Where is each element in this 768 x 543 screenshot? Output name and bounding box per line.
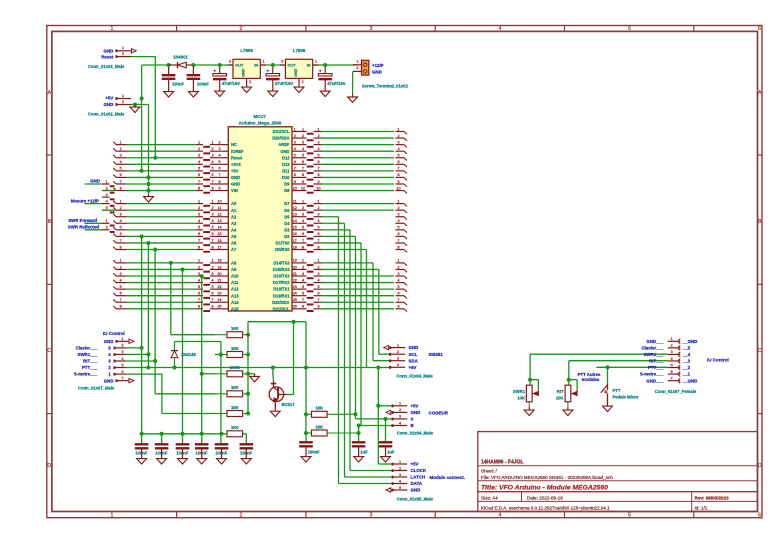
svg-text:8: 8 (211, 305, 213, 309)
svg-text:IOREF: IOREF (231, 149, 244, 154)
svg-text:2: 2 (211, 265, 213, 269)
svg-text:7: 7 (317, 239, 319, 243)
svg-text:SWR Forward: SWR Forward (68, 218, 97, 223)
connector J5 pin2 SWR Reflected wire (85, 229, 103, 231)
svg-text:1: 1 (671, 337, 673, 341)
svg-text:1: 1 (211, 199, 213, 203)
svg-text:D9: D9 (284, 182, 290, 187)
svg-text:20: 20 (293, 265, 297, 269)
svg-text:+5V: +5V (411, 462, 419, 467)
frame row ticks left/right (47, 154, 52, 156)
svg-text:7: 7 (218, 173, 220, 177)
svg-text:1: 1 (120, 140, 122, 144)
connector J4 pin2 (102, 190, 110, 192)
svg-text:13: 13 (293, 213, 297, 217)
svg-text:7: 7 (302, 239, 304, 243)
capacitor C1 100nF (168, 65, 170, 75)
wire/pins left row C7 (113, 299, 116, 302)
svg-text:SWR1: SWR1 (513, 389, 526, 394)
wire +5V pullup vertical x306 (305, 322, 307, 442)
svg-text:5: 5 (397, 154, 399, 158)
svg-text:1: 1 (397, 259, 399, 263)
svg-text:8: 8 (198, 305, 200, 309)
svg-text:__1: __1 (682, 372, 691, 377)
svg-text:1: 1 (302, 127, 304, 131)
svg-text:14HAM86 - F4JGL: 14HAM86 - F4JGL (481, 459, 524, 465)
wire/pins right row B1 (292, 203, 300, 205)
svg-text:100nF: 100nF (197, 81, 210, 86)
svg-text:SWR1___: SWR1___ (77, 352, 98, 357)
svg-text:4: 4 (499, 26, 502, 32)
svg-text:GND: GND (231, 182, 240, 187)
svg-text:GND: GND (104, 378, 114, 383)
svg-text:5: 5 (198, 167, 200, 171)
svg-text:C: C (758, 348, 762, 354)
svg-text:6: 6 (302, 292, 304, 296)
svg-text:A1: A1 (231, 208, 237, 213)
svg-text:Arduino_Mega_2560: Arduino_Mega_2560 (239, 120, 282, 125)
svg-text:16: 16 (217, 239, 221, 243)
svg-text:D20/SDA: D20/SDA (272, 300, 289, 305)
svg-text:6: 6 (120, 173, 122, 177)
wire vertical encoder B net (360, 243, 362, 426)
svg-text:1uF: 1uF (360, 449, 368, 454)
svg-text:SCL: SCL (409, 352, 418, 357)
wire +5V to CODEUR pin1 (378, 405, 392, 407)
svg-text:2: 2 (240, 26, 243, 32)
svg-text:S-metre___: S-metre___ (74, 372, 98, 377)
svg-text:2: 2 (397, 134, 399, 138)
svg-text:3: 3 (302, 213, 304, 217)
wire vertical RIT net from MCU A7 row to R4 (154, 250, 156, 394)
svg-text:A15: A15 (231, 306, 239, 311)
svg-text:14: 14 (217, 226, 221, 230)
svg-text:L7805: L7805 (240, 48, 253, 53)
wire/pins left row B3 (113, 214, 116, 217)
svg-text:B: B (411, 423, 414, 428)
svg-text:3: 3 (121, 350, 123, 354)
svg-text:7: 7 (397, 298, 399, 302)
svg-text:3: 3 (397, 213, 399, 217)
svg-text:8: 8 (302, 245, 304, 249)
title block title line (478, 491, 758, 493)
svg-text:1: 1 (211, 259, 213, 263)
svg-text:23: 23 (293, 285, 297, 289)
svg-text:2: 2 (294, 134, 296, 138)
svg-text:10: 10 (217, 199, 221, 203)
svg-text:3: 3 (211, 272, 213, 276)
svg-text:7: 7 (211, 180, 213, 184)
svg-text:8: 8 (397, 245, 399, 249)
svg-text:25: 25 (217, 305, 221, 309)
svg-text:2: 2 (397, 350, 399, 354)
svg-text:2: 2 (218, 140, 220, 144)
connector J7 pin1 GND (390, 347, 406, 349)
svg-text:A10: A10 (231, 274, 239, 279)
connector J9 pin5 GND (392, 489, 407, 491)
ground at J2 GND (133, 103, 137, 107)
svg-text:2: 2 (397, 265, 399, 269)
wire +5V pin to vertical (140, 97, 144, 101)
svg-text:6: 6 (397, 160, 399, 164)
svg-text:19: 19 (293, 259, 297, 263)
svg-text:2: 2 (249, 79, 251, 84)
wire IU SWR1 row (126, 353, 149, 355)
svg-text:4: 4 (302, 147, 304, 151)
svg-text:+5V: +5V (411, 403, 419, 408)
wire/pins left row B5 (113, 227, 116, 230)
svg-text:D15/RX3: D15/RX3 (273, 267, 290, 272)
wire/pins left row A2 (113, 148, 116, 151)
svg-text:47uF/16V: 47uF/16V (222, 81, 241, 86)
svg-text:Conn_01x02_Male: Conn_01x02_Male (88, 64, 125, 69)
svg-text:A5: A5 (231, 234, 237, 239)
svg-text:1: 1 (122, 93, 124, 98)
svg-text:3: 3 (198, 213, 200, 217)
capacitor C14 1uF (encoder A) (385, 419, 387, 442)
ground below RV2 (567, 402, 569, 408)
svg-text:1N4001: 1N4001 (173, 55, 188, 60)
svg-text:24: 24 (217, 298, 221, 302)
svg-text:1: 1 (397, 343, 399, 347)
svg-text:2: 2 (120, 265, 122, 269)
capacitor C5 47uF/16V electrolytic (324, 65, 326, 75)
capacitor C13 1uF (encoder B) (358, 426, 360, 442)
svg-text:6: 6 (671, 370, 673, 374)
svg-text:9: 9 (218, 186, 220, 190)
svg-text:5: 5 (211, 167, 213, 171)
capacitor C9 100nF (195, 443, 209, 445)
ground pin U1 (246, 78, 248, 84)
svg-text:Module connect.: Module connect. (430, 475, 466, 480)
potentiometer RV2 RIT 10K (568, 361, 570, 386)
svg-text:7: 7 (120, 239, 122, 243)
switch SW1 PTT Pedale Micro (607, 367, 609, 383)
wire/pins left row B8 (113, 247, 116, 250)
svg-text:7: 7 (211, 239, 213, 243)
svg-text:4: 4 (211, 219, 213, 223)
svg-text:A: A (48, 90, 52, 96)
wire vertical from MCU A8 row to R1 (170, 263, 172, 335)
svg-text:__GND: __GND (682, 378, 698, 383)
wire/pins right row A5 (292, 157, 300, 159)
wire/pins right row C5 (292, 288, 300, 290)
svg-text:1: 1 (211, 140, 213, 144)
svg-text:8: 8 (218, 180, 220, 184)
svg-text:1N4148: 1N4148 (181, 352, 196, 357)
svg-text:Conn_01x04_Male: Conn_01x04_Male (396, 373, 433, 378)
svg-text:8: 8 (120, 186, 122, 190)
svg-text:7: 7 (317, 167, 319, 171)
capacitor C7 100nF (155, 443, 169, 445)
svg-text:4: 4 (120, 278, 122, 282)
wire reset vertical (154, 57, 156, 158)
svg-text:Rev: 08/03/2023: Rev: 08/03/2023 (695, 496, 730, 501)
svg-text:5: 5 (628, 512, 631, 518)
svg-text:8: 8 (317, 245, 319, 249)
wire/pins right row B2 (292, 209, 300, 211)
svg-text:5: 5 (120, 285, 122, 289)
svg-text:IN: IN (254, 62, 258, 67)
svg-text:Reset: Reset (101, 54, 113, 59)
wire IU RIT row (126, 360, 156, 362)
svg-text:1: 1 (120, 199, 122, 203)
svg-text:D6: D6 (284, 208, 290, 213)
svg-text:3: 3 (198, 272, 200, 276)
svg-text:2: 2 (211, 206, 213, 210)
svg-text:10K: 10K (231, 346, 239, 351)
svg-text:GND: GND (231, 175, 240, 180)
svg-text:CLOCK: CLOCK (411, 468, 427, 473)
svg-text:DATA: DATA (411, 481, 423, 486)
svg-text:21: 21 (217, 278, 221, 282)
connector J8 pin4 B (392, 425, 407, 427)
svg-text:25: 25 (293, 298, 297, 302)
svg-text:2: 2 (317, 134, 319, 138)
ground stub right of R3 (248, 373, 255, 375)
svg-text:IU Control: IU Control (103, 331, 125, 336)
svg-text:2: 2 (397, 206, 399, 210)
svg-text:7: 7 (120, 180, 122, 184)
wire/pins left row C5 (113, 286, 116, 289)
svg-text:6: 6 (120, 292, 122, 296)
title block box (478, 432, 758, 512)
ground below RV1 (528, 402, 530, 408)
wire GND vertical to MCU GND rows (148, 105, 150, 195)
svg-text:5: 5 (317, 285, 319, 289)
svg-text:A9: A9 (231, 267, 237, 272)
svg-text:1: 1 (111, 26, 114, 32)
svg-text:GND: GND (409, 345, 419, 350)
wire vertical DATA net (338, 217, 340, 484)
svg-text:+: + (213, 69, 216, 74)
svg-text:2: 2 (122, 51, 124, 56)
svg-text:OUT: OUT (287, 62, 296, 67)
resistor R4 10K (215, 393, 227, 395)
svg-text:D11: D11 (282, 168, 290, 173)
wire/pins right row A7 (292, 170, 300, 172)
svg-text:5: 5 (120, 167, 122, 171)
svg-text:__GND: __GND (682, 339, 698, 344)
svg-text:Clavier___: Clavier___ (76, 345, 99, 350)
svg-text:1: 1 (106, 180, 108, 184)
svg-text:SI5351: SI5351 (429, 352, 444, 357)
wire +5V vertical to MCU +5V row (141, 99, 143, 171)
ground below C9 (201, 448, 203, 456)
svg-text:8: 8 (317, 173, 319, 177)
svg-text:2: 2 (122, 99, 124, 104)
svg-text:100K: 100K (230, 365, 240, 370)
connector J4 pin4 (Mesure +12/P) wire (85, 203, 103, 205)
wire vertical from MCU A9 row to cap C9 (182, 270, 184, 445)
wire +5V to module pin1 (378, 463, 392, 465)
svg-text:1: 1 (111, 512, 114, 518)
svg-text:4: 4 (302, 219, 304, 223)
svg-text:Conn_01x05_Male: Conn_01x05_Male (397, 496, 434, 501)
svg-text:3: 3 (370, 512, 373, 518)
wire/pins left row A8 (113, 188, 116, 191)
svg-text:8: 8 (211, 245, 213, 249)
svg-text:4: 4 (294, 147, 296, 151)
svg-text:3: 3 (218, 147, 220, 151)
wire encoder B row horizontal (359, 425, 392, 427)
svg-text:4: 4 (317, 219, 319, 223)
svg-text:GND: GND (104, 48, 114, 53)
svg-text:Reset: Reset (231, 155, 243, 160)
svg-text:10: 10 (316, 186, 320, 190)
frame column ticks top/bottom (176, 26, 178, 32)
svg-text:3: 3 (211, 213, 213, 217)
wire encoder A row horizontal (356, 418, 393, 420)
svg-text:2: 2 (198, 265, 200, 269)
resistor R6 1K0 in caps bus line (227, 431, 243, 437)
svg-text:7: 7 (302, 298, 304, 302)
svg-text:10: 10 (301, 186, 305, 190)
svg-text:2: 2 (120, 206, 122, 210)
svg-text:2: 2 (121, 344, 123, 348)
title block file section line (478, 480, 758, 482)
svg-text:1: 1 (120, 259, 122, 263)
svg-text:17: 17 (293, 239, 297, 243)
wire H1 bridge diode to R2 (175, 341, 221, 343)
svg-text:GND: GND (372, 69, 382, 74)
connector J4 pin3 (NC) (102, 196, 110, 198)
svg-text:6: 6 (317, 292, 319, 296)
svg-text:3: 3 (120, 154, 122, 158)
node reset junction at MCU Reset row (153, 156, 157, 160)
svg-text:5: 5 (397, 285, 399, 289)
capacitor C6 100nF (135, 443, 149, 445)
diode D2 1N4148 vertical (174, 342, 176, 351)
svg-text:4: 4 (499, 512, 502, 518)
svg-text:2: 2 (302, 134, 304, 138)
svg-text:21: 21 (293, 272, 297, 276)
wire/pins right row B8 (292, 249, 300, 251)
connector J8 pin2 female hook (GND) (386, 410, 391, 414)
svg-text:1: 1 (302, 199, 304, 203)
svg-text:7: 7 (397, 167, 399, 171)
ground below C8 (182, 448, 184, 456)
svg-text:4: 4 (120, 219, 122, 223)
svg-text:3: 3 (281, 59, 283, 64)
svg-text:3: 3 (317, 140, 319, 144)
svg-text:5: 5 (397, 226, 399, 230)
ground below SW1 (607, 404, 609, 407)
svg-text:3: 3 (198, 154, 200, 158)
resistor R8 10K (encoder B pullup) (306, 432, 312, 434)
svg-text:Conn_01x07_Female: Conn_01x07_Female (655, 389, 697, 394)
wire/pins right row B5 (292, 229, 300, 231)
svg-text:KiCad E.D.A. eeschema 6.0.11-: KiCad E.D.A. eeschema 6.0.11-2627ca8d90-… (481, 505, 610, 510)
svg-text:6: 6 (397, 292, 399, 296)
svg-text:4: 4 (397, 363, 399, 367)
svg-text:BC517: BC517 (282, 402, 296, 407)
svg-text:1: 1 (317, 127, 319, 131)
svg-text:D18/TX1: D18/TX1 (273, 287, 290, 292)
wire SCL to connector (379, 353, 390, 355)
connector J9 pin4 DATA (392, 483, 407, 485)
svg-text:SDA: SDA (409, 358, 419, 363)
svg-text:3: 3 (317, 272, 319, 276)
svg-text:Conn_01x04_Male: Conn_01x04_Male (397, 431, 434, 436)
capacitor C2 100nF (192, 65, 194, 75)
wire/pins right row A3 (292, 144, 300, 146)
wire/pins right row A4 (292, 150, 300, 152)
svg-text:D: D (758, 463, 762, 469)
ground below C14 (385, 446, 387, 454)
svg-text:3: 3 (397, 140, 399, 144)
svg-text:5: 5 (302, 285, 304, 289)
svg-text:4: 4 (302, 278, 304, 282)
svg-text:AREF: AREF (278, 142, 290, 147)
wire RIT to IU control female (569, 360, 668, 362)
wire/pins right row A10 (292, 190, 300, 192)
svg-text:10: 10 (396, 186, 400, 190)
svg-text:7: 7 (198, 180, 200, 184)
ground below C7 (161, 448, 163, 456)
wire/pins left row A1 (113, 142, 116, 145)
svg-text:11: 11 (293, 199, 297, 203)
svg-text:4: 4 (198, 219, 200, 223)
connector J4 pin5 (102, 209, 110, 211)
svg-text:8: 8 (198, 245, 200, 249)
wire/pins right row C3 (292, 275, 300, 277)
svg-text:1: 1 (106, 219, 108, 223)
wire vertical SCL net (378, 270, 380, 355)
wire collector vertical (293, 322, 295, 395)
wire cap2 drop from bus (161, 434, 163, 445)
wire/pins right row A1 (292, 131, 300, 133)
connector J7 pin4 +5V (390, 366, 406, 368)
wire/pins right row B6 (292, 235, 300, 237)
connector J8 pin2 GND (392, 411, 407, 413)
svg-text:LATCH: LATCH (411, 475, 426, 480)
wire GND pin2 (131, 104, 149, 106)
svg-text:3: 3 (120, 213, 122, 217)
wire/pins right row B3 (292, 216, 300, 218)
svg-text:GND___: GND___ (646, 339, 664, 344)
wire resistor common vertical (247, 322, 249, 414)
svg-text:PTT: PTT (613, 388, 621, 393)
ground below C10 (221, 448, 223, 456)
svg-text:D16/TX2: D16/TX2 (273, 274, 290, 279)
svg-text:VIN: VIN (231, 188, 238, 193)
svg-text:GND: GND (104, 339, 114, 344)
wire/pins left row B1 (113, 201, 116, 204)
svg-text:7: 7 (120, 298, 122, 302)
svg-text:5: 5 (399, 486, 401, 490)
svg-text:3: 3 (229, 59, 231, 64)
wire DATA row (339, 483, 393, 485)
svg-text:2: 2 (198, 206, 200, 210)
svg-text:GND: GND (90, 179, 100, 184)
svg-text:Size: A4: Size: A4 (481, 496, 498, 501)
svg-text:Mesure +12/P: Mesure +12/P (71, 198, 99, 203)
svg-text:1: 1 (198, 259, 200, 263)
svg-text:L7808: L7808 (293, 48, 306, 53)
svg-text:6: 6 (218, 167, 220, 171)
connector J7 pin2 SCL (390, 353, 406, 355)
wire/pins left row C8 (113, 306, 116, 309)
svg-text:A7: A7 (231, 247, 237, 252)
svg-text:D20/SDA: D20/SDA (272, 136, 289, 141)
wire/pins right row A8 (292, 176, 300, 178)
wire vertical LATCH net (344, 223, 346, 477)
svg-text:Title: VFO Arduino - Module ME: Title: VFO Arduino - Module MEGA2560 (481, 485, 608, 492)
svg-text:4: 4 (121, 357, 123, 361)
wire/pins right row C6 (292, 295, 300, 297)
svg-text:SWR Reflected: SWR Reflected (68, 225, 100, 230)
